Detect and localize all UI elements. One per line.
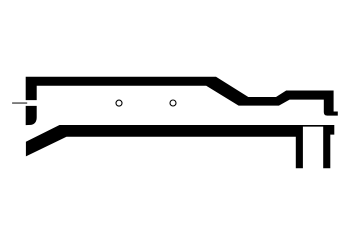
centerline dash at left end wall (12, 102, 27, 103)
hole H2 (170, 100, 176, 106)
top flange profile (upper thick band with left end wall, down-step, up-step and right end leg with foot) (26, 77, 338, 116)
bottom chord (lower thick band with left diagonal end, notch and two legs at right) (26, 125, 334, 168)
hole H1 (116, 100, 122, 106)
left end wall lower segment (below centerline gap, rounded bottom-right) (26, 106, 37, 125)
